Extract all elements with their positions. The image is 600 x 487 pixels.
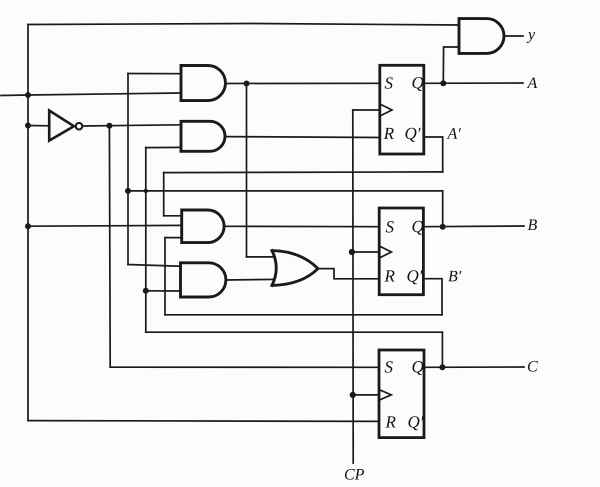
flip-flop A clock triangle — [381, 104, 393, 115]
wire CP vertical — [352, 110, 354, 463]
wire AND G2 bottom vertical — [145, 148, 147, 333]
node x input junction — [25, 92, 31, 98]
node B-net junction — [125, 188, 131, 194]
wire AND G5 output — [504, 35, 523, 37]
wire OR G6 output to R of FF B — [318, 269, 379, 279]
wire inverter output to AND G2 — [83, 125, 182, 126]
label B-prime — [448, 271, 461, 282]
AND gate G3 — [182, 210, 224, 243]
wire top bus x to AND gate G5 — [28, 24, 459, 26]
flip-flop A label S — [385, 77, 393, 88]
node B-net tap 2 — [144, 189, 148, 193]
AND gate G5 output y — [459, 19, 504, 54]
wire clock to FF B — [352, 251, 379, 253]
wire S input of flip-flop C — [110, 366, 379, 368]
inverter U1 bubble — [76, 123, 83, 130]
node inverter tap — [25, 123, 31, 129]
flip-flop A label R — [384, 128, 394, 139]
inverter U1 — [49, 111, 74, 141]
wire left vertical bus x — [27, 25, 29, 421]
AND gate G4 — [181, 263, 226, 297]
flip-flop C body — [379, 350, 424, 438]
wire A-prime feedback horizontal — [164, 171, 443, 174]
wire clock to FF A — [353, 109, 380, 111]
flip-flop B label Q-prime — [407, 270, 422, 284]
wire A-prime feedback vertical — [163, 173, 165, 216]
AND gate G2 — [181, 121, 225, 151]
node AND G3 middle tap — [25, 223, 31, 229]
wire OR G6 top input vertical — [246, 84, 248, 257]
wire AND G3 top input — [164, 215, 182, 217]
wire AND G4 output to OR G6 — [226, 278, 274, 281]
label A — [527, 77, 538, 88]
label A-prime — [447, 128, 461, 139]
wire B feedback horizontal — [128, 190, 443, 192]
flip-flop C label R — [385, 416, 395, 427]
wire AND G3 middle input — [28, 224, 182, 227]
label B — [528, 220, 537, 231]
wire AND G2 bottom input — [146, 146, 181, 148]
wire B-prime feedback horizontal — [165, 314, 442, 316]
wire x-prime vertical — [108, 126, 111, 367]
node Q-C junction — [439, 364, 445, 370]
wire clock to FF C — [353, 394, 379, 396]
OR gate G6 — [272, 251, 318, 286]
AND gate G1 — [181, 66, 225, 101]
wire C feedback horizontal — [146, 331, 443, 333]
flip-flop B label R — [384, 270, 394, 281]
wire Q-prime of FF A to A-prime — [424, 137, 443, 172]
wire AND G2 output to R of FF A — [225, 136, 380, 139]
label CP — [345, 469, 364, 480]
node clock FF B — [349, 249, 355, 255]
flip-flop C label S — [385, 361, 393, 372]
wire B-prime feedback vertical — [164, 238, 166, 315]
flip-flop B body — [379, 208, 423, 295]
flip-flop C label Q-prime — [408, 416, 423, 430]
label y — [527, 32, 535, 43]
flip-flop B clock triangle — [380, 246, 392, 257]
node AND G4 bottom tap — [143, 288, 149, 294]
flip-flop A label Q — [412, 77, 423, 91]
flip-flop B label Q — [412, 221, 423, 235]
wire B feedback vertical from Q of FF B — [442, 191, 444, 227]
wire Q of FF C to output C — [424, 366, 524, 368]
node Q-B junction — [440, 224, 446, 230]
wire C feedback vertical — [441, 332, 443, 367]
flip-flop A label Q-prime — [405, 128, 420, 142]
node clock FF C — [350, 392, 356, 398]
wire B-net vertical to G1/G4 — [127, 74, 129, 265]
node G1 output branch — [244, 81, 250, 87]
wire OR G6 top input — [247, 256, 276, 258]
wire inverter input — [28, 125, 49, 127]
wire R input of FF C — [28, 420, 379, 423]
node Q-A branch — [440, 80, 446, 86]
flip-flop A body — [380, 65, 424, 154]
wire AND G1 output to S of FF A — [226, 82, 381, 84]
wire AND G3 output to S of FF B — [224, 225, 379, 227]
wire AND G3 bottom input — [165, 237, 182, 239]
flip-flop C label Q — [412, 361, 423, 375]
flip-flop B label S — [386, 221, 394, 232]
wire AND G1 top input — [128, 73, 181, 75]
flip-flop C clock triangle — [380, 390, 392, 400]
wire AND G4 top input — [128, 265, 181, 267]
label C — [528, 361, 538, 372]
wire input x — [1, 93, 181, 96]
node x-prime branch — [106, 123, 112, 129]
wire Q-prime of FF B to B-prime — [423, 279, 442, 315]
wire Q-A up to AND G5 — [443, 47, 459, 83]
wire Q of FF B to output B — [423, 225, 524, 228]
wire Q of FF A to output A — [424, 82, 523, 84]
wire AND G4 bottom input — [146, 290, 181, 292]
